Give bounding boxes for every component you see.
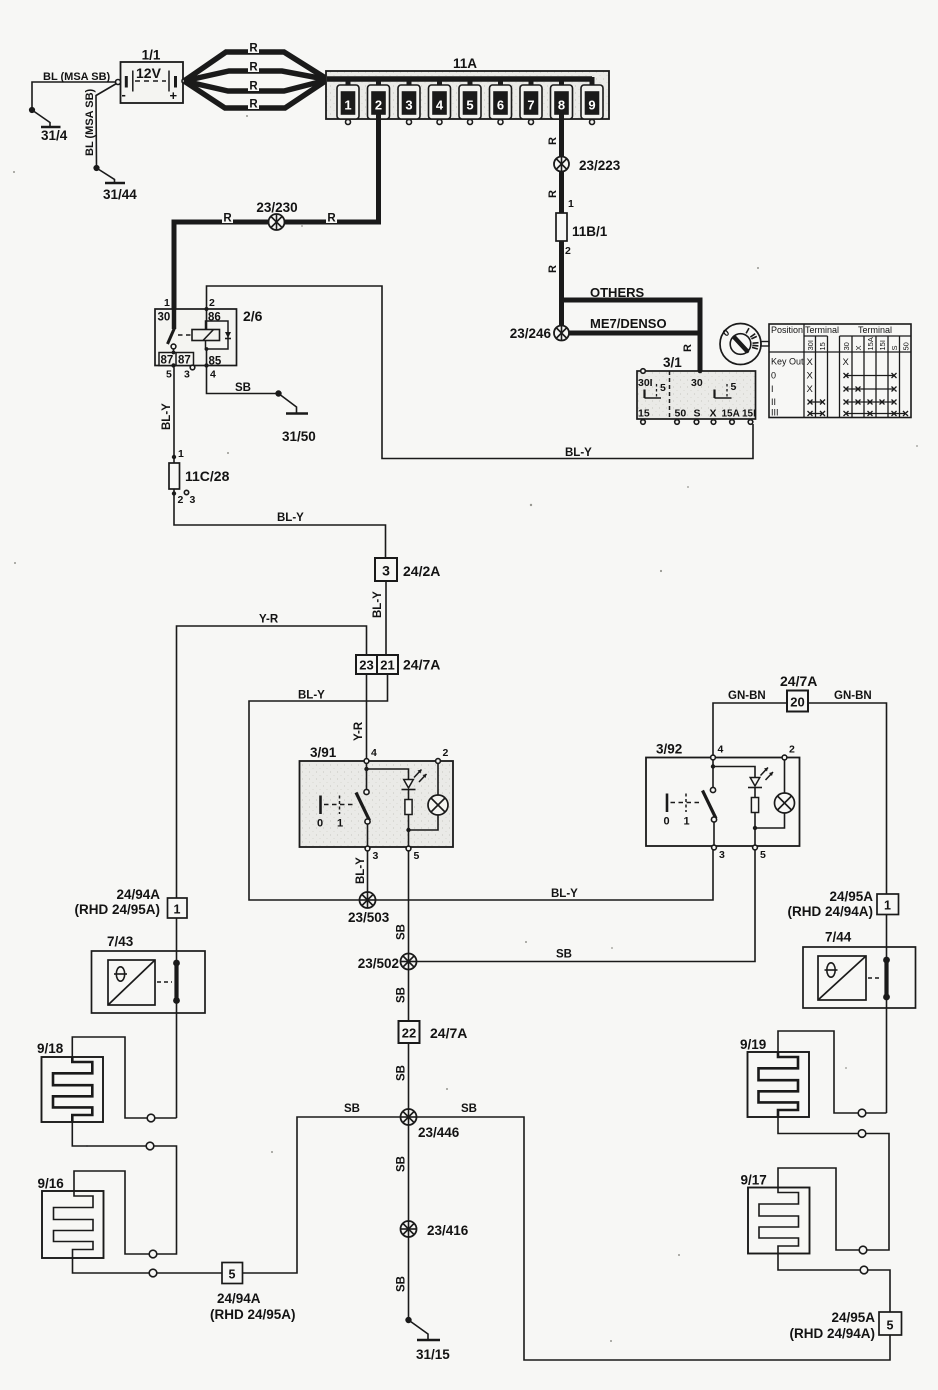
connector 24/2A pin 3 [375, 558, 440, 581]
svg-text:85: 85 [209, 356, 222, 368]
svg-text:24/94A: 24/94A [116, 887, 160, 902]
wire 23/416 to ground 31/15 (SB) [396, 1237, 409, 1320]
inline connector [149, 1250, 157, 1258]
connector 24/7A pins 23 | 21 [356, 655, 440, 674]
svg-text:BL-Y: BL-Y [565, 447, 592, 459]
pin 2 [782, 755, 787, 760]
pin 2 [436, 759, 441, 764]
thermostat 7/44 [803, 930, 916, 1009]
svg-text:3: 3 [382, 563, 390, 579]
svg-text:24/94A: 24/94A [217, 1291, 261, 1306]
svg-text:1: 1 [174, 903, 181, 917]
svg-text:1: 1 [164, 297, 170, 309]
svg-text:2: 2 [375, 98, 382, 113]
svg-text:7/44: 7/44 [825, 930, 852, 945]
fuse 3 (11A) [398, 77, 420, 125]
svg-text:9/18: 9/18 [37, 1041, 64, 1056]
svg-text:50: 50 [675, 408, 687, 420]
wire 23/446 down to connector 23/416 (SB) [396, 1125, 409, 1229]
resistor [408, 790, 410, 800]
svg-text:R: R [547, 265, 559, 273]
wire fuse 8 down (R) [547, 114, 562, 157]
internal wiring from pin 4 [366, 763, 368, 790]
svg-text:(RHD 24/95A): (RHD 24/95A) [74, 902, 160, 917]
indicator LED [404, 780, 414, 789]
wire 22 down to connector 23/446 (SB) [396, 1043, 409, 1117]
connector 24/7A pin 22 [399, 1021, 468, 1043]
svg-text:11A: 11A [453, 56, 477, 71]
svg-text:31/50: 31/50 [282, 429, 316, 444]
heated seat element 9/19 [740, 1037, 809, 1117]
connector 23/223 [554, 157, 621, 174]
svg-text:Y-R: Y-R [259, 614, 279, 626]
svg-text:R: R [249, 62, 258, 74]
svg-text:I: I [771, 384, 774, 394]
svg-text:(RHD 24/94A): (RHD 24/94A) [789, 1326, 875, 1341]
svg-text:GN-BN: GN-BN [728, 690, 766, 702]
wire fuse 2 to relay 2/6 pin 30 (R, thick) [174, 114, 379, 309]
inline connector [858, 1109, 866, 1117]
heated seat element 9/16 [38, 1176, 104, 1258]
svg-text:5: 5 [466, 98, 473, 113]
row II contact lines 30I-15, 30-X-15A-15I-S [808, 400, 897, 405]
svg-text:24/95A: 24/95A [829, 889, 873, 904]
relay switch contact 30-87 [172, 309, 177, 329]
wire 9/19 bottom to 9/17 top [778, 1117, 889, 1254]
fuse box 11A [326, 56, 609, 119]
svg-text:4: 4 [718, 744, 724, 756]
svg-text:+: + [170, 88, 178, 103]
svg-text:3: 3 [184, 369, 190, 381]
svg-text:X: X [807, 357, 814, 368]
connector 23/246 [510, 326, 569, 342]
thermostat contact [886, 947, 888, 959]
wire 9/16 bottom to connector 24/94A pin 5 (left) [73, 1258, 223, 1277]
connector 23/446 [401, 1109, 460, 1140]
svg-text:23/502: 23/502 [358, 956, 399, 971]
svg-text:24/7A: 24/7A [780, 673, 817, 689]
svg-text:5: 5 [166, 369, 172, 381]
bus bar wire [327, 76, 592, 82]
svg-text:2: 2 [443, 747, 449, 759]
internal contact symbol right, 5 [713, 390, 715, 399]
svg-text:20: 20 [790, 695, 804, 710]
svg-text:BL-Y: BL-Y [161, 403, 173, 430]
fuse 8 (11A) [551, 77, 573, 119]
svg-text:23/246: 23/246 [510, 326, 552, 341]
wire 24/2A to 24/7A pin 21 (BL-Y) [372, 581, 386, 655]
connector 24/94A pin 1 (left) [74, 887, 187, 918]
wire 24/7A pin 21 to connector 23/503 and on to 3/92 pin 3 (BL-Y) [249, 674, 713, 900]
ground 31/50 [276, 391, 316, 444]
wire 3/91 pin 3 to connector 23/503 (BL-Y) [355, 851, 368, 900]
svg-text:15A: 15A [866, 337, 875, 350]
svg-text:0: 0 [664, 816, 670, 828]
fuse 9 (11A) [581, 77, 603, 125]
svg-text:1/1: 1/1 [142, 48, 161, 63]
svg-text:BL (MSA SB): BL (MSA SB) [84, 88, 96, 156]
svg-text:OTHERS: OTHERS [590, 285, 645, 300]
svg-text:R: R [547, 190, 559, 198]
svg-text:II: II [771, 397, 776, 407]
svg-text:Key Out: Key Out [771, 357, 804, 367]
svg-text:R: R [223, 213, 232, 225]
svg-text:R: R [249, 81, 258, 93]
wire to ignition switch 3/1 terminal 30 (R) [682, 333, 700, 371]
svg-text:2: 2 [209, 297, 215, 309]
svg-text:30: 30 [842, 342, 851, 350]
svg-text:5: 5 [760, 849, 766, 861]
svg-text:30: 30 [158, 312, 171, 324]
svg-text:23/223: 23/223 [579, 158, 621, 173]
wire 24/7A pin 23 to switch 3/91 pin 4 (Y-R) [353, 674, 367, 758]
inline connector [146, 1142, 154, 1150]
svg-text:R: R [327, 213, 336, 225]
svg-text:21: 21 [380, 658, 394, 673]
ground 31/44 [94, 166, 137, 202]
wire 7/43 down to 9/18 junction [176, 1013, 178, 1118]
svg-text:R: R [249, 99, 258, 111]
pin 5 [406, 846, 411, 851]
svg-text:SB: SB [396, 1156, 408, 1172]
svg-text:X: X [807, 384, 814, 395]
ignition key position symbol [720, 324, 769, 365]
svg-text:22: 22 [402, 1026, 416, 1041]
fuse 7 (11A) [520, 77, 542, 125]
svg-text:87: 87 [178, 355, 191, 367]
wire 11C/28 pin 2 to connector 24/2A (BL-Y) [174, 495, 386, 558]
connector 24/94A pin 5 (left) [210, 1263, 296, 1323]
wire 23/446 right branch to 24/95A pin 5 (SB) [417, 1103, 891, 1360]
wire branch OTHERS [562, 285, 701, 335]
wire 24/95A pin 1 to thermostat 7/44 [886, 915, 888, 948]
connector 23/230 [256, 200, 297, 230]
svg-text:-: - [122, 87, 126, 102]
inline connector [149, 1269, 157, 1277]
fuse 11B/1 [556, 213, 608, 257]
svg-text:3/1: 3/1 [663, 355, 682, 370]
connector 24/95A pin 5 (right) [789, 1310, 901, 1341]
wire battery minus to ground 31/44, BL (MSA SB) [84, 84, 117, 169]
svg-text:5: 5 [414, 850, 420, 862]
svg-text:1: 1 [568, 198, 574, 210]
pin 3 [365, 846, 370, 851]
svg-text:BL-Y: BL-Y [277, 512, 304, 524]
svg-text:30I: 30I [638, 377, 653, 389]
svg-text:1: 1 [337, 818, 343, 830]
svg-text:2: 2 [565, 245, 571, 257]
position markers 0 / 1 [319, 796, 322, 815]
wire relay 87 (pin 5) down to fuse 11C/28 (BL-Y) [161, 368, 184, 461]
svg-text:BL-Y: BL-Y [551, 888, 578, 900]
ignition switch position table [769, 324, 911, 418]
svg-text:SB: SB [235, 382, 251, 394]
wire Y-R from left main riser to 24/7A pin 23 [177, 614, 367, 899]
heated seat element 9/17 [741, 1173, 810, 1254]
pin 5 [753, 845, 758, 850]
wire 9/19 top to right main riser [778, 1031, 887, 1117]
wire 23/223 to fuse 11B/1 (R) [547, 172, 574, 214]
svg-text:2/6: 2/6 [243, 308, 263, 324]
relay coil inner box [206, 321, 229, 349]
svg-text:3: 3 [405, 98, 412, 113]
svg-text:5: 5 [887, 1319, 894, 1333]
svg-text:ME7/DENSO: ME7/DENSO [590, 316, 667, 331]
svg-text:X: X [854, 345, 863, 350]
svg-text:5: 5 [660, 382, 666, 394]
connector 24/95A pin 1 (right) [787, 889, 898, 919]
pins 5,3 (87 87) [159, 353, 194, 366]
svg-text:0: 0 [771, 371, 776, 381]
pin 4 [711, 755, 716, 760]
indicator LED [750, 778, 760, 787]
fuse 2 (11A) [368, 77, 390, 119]
wire 24/94A pin 1 to thermostat 7/43 [176, 918, 178, 951]
svg-text:3: 3 [719, 849, 725, 861]
resistor [754, 788, 756, 798]
svg-text:Y-R: Y-R [353, 721, 365, 741]
svg-text:11B/1: 11B/1 [572, 224, 608, 239]
wire 9/18 top to main riser [72, 1037, 176, 1122]
ground 31/15 [406, 1318, 450, 1362]
svg-text:23/503: 23/503 [348, 910, 390, 925]
svg-text:SB: SB [396, 1276, 408, 1292]
internal contact symbol left, 5 [643, 390, 645, 399]
svg-text:5: 5 [731, 381, 737, 393]
svg-text:1: 1 [344, 98, 351, 113]
svg-text:5: 5 [229, 1268, 236, 1282]
connector 23/503 [348, 892, 390, 925]
svg-text:BL-Y: BL-Y [298, 690, 325, 702]
svg-text:0: 0 [317, 818, 323, 830]
inline connector [859, 1246, 867, 1254]
row I contact line 30-X-S [844, 387, 897, 392]
svg-text:24/7A: 24/7A [403, 657, 440, 673]
wire 23/502 to 3/92 pin 5 (SB) [417, 848, 756, 962]
wire 3/92 pin 4 to connector 20 (GN-BN) [713, 690, 787, 755]
inline connector [860, 1266, 868, 1274]
svg-text:SB: SB [396, 924, 408, 940]
pin 3 [712, 845, 717, 850]
wire branch ME7/DENSO [562, 316, 701, 333]
svg-text:R: R [249, 43, 258, 55]
indicator lamp [784, 760, 786, 794]
svg-text:31/15: 31/15 [416, 1347, 450, 1362]
indicator lamp [437, 763, 439, 795]
svg-text:15: 15 [818, 342, 827, 350]
svg-text:30: 30 [691, 377, 703, 389]
svg-text:9: 9 [588, 98, 595, 113]
wire 23/502 down to connector 22 (SB) [396, 970, 409, 1022]
svg-text:X: X [843, 357, 850, 368]
ignition switch 3/1 [637, 355, 756, 424]
wire relay 85 to ground 31/50 (SB) [207, 366, 279, 395]
svg-text:BL (MSA SB): BL (MSA SB) [43, 71, 111, 83]
svg-text:(RHD 24/95A): (RHD 24/95A) [210, 1307, 296, 1322]
wire 3/91 pin 5 to connector 23/502 (SB) [396, 851, 409, 954]
svg-text:3: 3 [373, 850, 379, 862]
fuse 1 (11A) [337, 77, 359, 125]
svg-text:BL-Y: BL-Y [372, 591, 384, 618]
svg-text:9/16: 9/16 [38, 1176, 65, 1191]
svg-text:12V: 12V [136, 65, 162, 81]
svg-text:11C/28: 11C/28 [185, 468, 230, 484]
svg-text:X: X [710, 408, 717, 420]
svg-text:X: X [807, 371, 814, 382]
svg-text:30I: 30I [806, 340, 815, 350]
svg-text:23: 23 [359, 658, 373, 673]
wire left 5 box to connector 23/446 (SB) [243, 1103, 402, 1273]
ground 31/4 [30, 108, 68, 143]
pin 4 [364, 759, 369, 764]
fuse 6 (11A) [490, 77, 512, 125]
wire relay 86 to ignition 15I (BL-Y) [207, 286, 754, 459]
wire connector 20 to right main riser (GN-BN) [808, 690, 887, 894]
svg-text:4: 4 [436, 98, 444, 113]
svg-text:R: R [547, 137, 559, 145]
svg-text:SB: SB [344, 1103, 360, 1115]
thermostat 7/43 [92, 934, 206, 1013]
fuse 5 (11A) [459, 77, 481, 125]
inline connector [858, 1130, 866, 1138]
svg-text:2: 2 [789, 744, 795, 756]
svg-text:SB: SB [396, 987, 408, 1003]
row III contact lines 30I-15, 30-15A-S-50 [808, 411, 909, 416]
svg-text:S: S [890, 345, 899, 350]
svg-text:1: 1 [884, 899, 891, 913]
svg-text:50: 50 [902, 342, 911, 350]
svg-text:(RHD 24/94A): (RHD 24/94A) [787, 904, 873, 919]
svg-text:4: 4 [210, 369, 216, 381]
svg-text:3: 3 [190, 494, 196, 506]
heated seat switch 3/91 [300, 745, 454, 862]
svg-text:Terminal: Terminal [805, 325, 839, 335]
svg-text:R: R [682, 344, 694, 352]
svg-text:Terminal: Terminal [858, 325, 892, 335]
svg-text:24/95A: 24/95A [831, 1310, 875, 1325]
wire 9/18 bottom to 9/16 top [72, 1122, 176, 1258]
position markers 0 / 1 [666, 794, 669, 813]
svg-text:87: 87 [161, 355, 174, 367]
svg-text:15I: 15I [878, 340, 887, 350]
svg-text:BL-Y: BL-Y [355, 857, 367, 884]
svg-text:9/19: 9/19 [740, 1037, 766, 1052]
svg-text:8: 8 [558, 98, 565, 113]
svg-text:23/416: 23/416 [427, 1223, 469, 1238]
row 0 contact line 30-S [844, 373, 897, 378]
internal wiring from pin 4 [712, 760, 714, 789]
svg-text:7: 7 [527, 98, 534, 113]
diode on coil branch [225, 332, 231, 338]
svg-text:23/230: 23/230 [256, 200, 297, 215]
svg-text:4: 4 [371, 747, 377, 759]
connector 24/7A pin 20 [780, 673, 817, 712]
fuse 4 (11A) [429, 77, 451, 125]
svg-text:GN-BN: GN-BN [834, 690, 872, 702]
connector 23/416 [401, 1221, 469, 1238]
switch contact [364, 789, 369, 794]
svg-text:III: III [771, 408, 779, 418]
svg-text:SB: SB [461, 1103, 477, 1115]
inline connector [147, 1114, 155, 1122]
wire battery minus to ground 31/4, BL (MSA SB) [32, 71, 116, 110]
svg-text:23/446: 23/446 [418, 1125, 460, 1140]
fuse 11C/28 [169, 457, 230, 506]
svg-text:7/43: 7/43 [107, 934, 134, 949]
battery 1/1 [116, 48, 188, 104]
svg-text:S: S [694, 408, 701, 420]
svg-text:15A: 15A [722, 409, 740, 420]
svg-text:1: 1 [178, 448, 184, 460]
wire 11B/1 to 23/246 (R) [547, 241, 562, 333]
svg-text:15I: 15I [742, 409, 756, 420]
svg-text:6: 6 [497, 98, 504, 113]
wire bundle battery to fuse box 11A (4 parallel R wires) [184, 52, 327, 108]
svg-text:2: 2 [178, 494, 184, 506]
switch contact [710, 787, 715, 792]
heated seat switch 3/92 [646, 742, 800, 862]
svg-text:1: 1 [684, 816, 690, 828]
terminal circles [641, 420, 646, 425]
svg-text:31/44: 31/44 [103, 187, 137, 202]
connector 23/502 [358, 954, 417, 972]
svg-text:3/91: 3/91 [310, 745, 337, 760]
heated seat element 9/18 [37, 1041, 103, 1122]
relay 2/6 [155, 297, 263, 381]
svg-text:15: 15 [638, 408, 650, 420]
svg-text:SB: SB [396, 1065, 408, 1081]
wire 7/44 down to 9/19 junction [886, 1008, 888, 1113]
svg-text:31/4: 31/4 [41, 128, 68, 143]
svg-text:3/92: 3/92 [656, 742, 682, 757]
thermostat contact [176, 951, 178, 962]
svg-text:24/7A: 24/7A [430, 1025, 467, 1041]
relay coil [192, 330, 220, 341]
svg-text:SB: SB [556, 949, 572, 961]
svg-text:24/2A: 24/2A [403, 563, 440, 579]
svg-text:9/17: 9/17 [741, 1173, 767, 1188]
svg-text:Position: Position [771, 325, 803, 335]
wire 9/17 bottom to connector 24/95A pin 5 (right) [778, 1254, 890, 1313]
